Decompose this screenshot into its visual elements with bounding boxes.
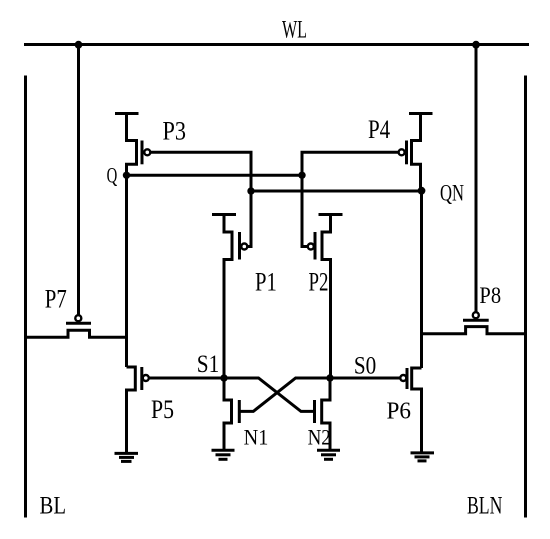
- node WL-BL junction: [75, 41, 83, 49]
- node Q rail to P4 gate: [298, 172, 305, 179]
- transistor P2: [308, 215, 343, 379]
- wire Q rail: [127, 174, 303, 177]
- wire P3 gate to QN rail and P1 gate: [150, 152, 251, 246]
- node WL-BLN junction: [472, 41, 480, 49]
- wire WL to P8 gate: [475, 45, 478, 313]
- node QN rail to P3 gate: [247, 187, 254, 194]
- transistor N2: [315, 378, 331, 451]
- transistor P6: [400, 368, 421, 453]
- transistor P8: [463, 312, 489, 320]
- svg-text:P4: P4: [368, 115, 390, 144]
- wire P5 gate to S1: [149, 377, 224, 380]
- ground under P5: [115, 453, 139, 461]
- svg-text:BLN: BLN: [467, 492, 502, 519]
- wire Q vertical: [125, 175, 128, 367]
- ground under N1: [212, 450, 235, 459]
- transistor P5: [127, 367, 149, 453]
- svg-text:P6: P6: [387, 397, 412, 424]
- ground under N2: [317, 450, 340, 459]
- wire S0 to N1 gate (cross): [239, 378, 330, 411]
- wire QN rail: [251, 190, 422, 193]
- transistor P1: [212, 215, 247, 379]
- node QN: [418, 187, 426, 195]
- wire P4 gate to Q rail and P2 gate: [302, 152, 399, 246]
- wire BL to Q through P7 channel: [26, 330, 127, 337]
- wire WL: [24, 43, 529, 46]
- ground under P6: [411, 453, 435, 461]
- svg-text:N2: N2: [308, 425, 331, 450]
- wire WL to P7 gate: [77, 45, 80, 316]
- svg-text:WL: WL: [282, 15, 307, 44]
- wire QN vertical: [420, 191, 423, 368]
- svg-text:P3: P3: [163, 117, 187, 146]
- svg-text:QN: QN: [440, 181, 464, 207]
- transistor P7: [66, 315, 91, 323]
- transistor P3: [115, 114, 150, 176]
- wire S0 to P6 gate: [330, 377, 400, 380]
- node S1: [220, 374, 227, 381]
- transistor N1: [224, 378, 239, 451]
- svg-text:Q: Q: [107, 164, 118, 189]
- wire BL vertical: [24, 76, 27, 518]
- svg-text:S1: S1: [197, 351, 220, 378]
- svg-text:N1: N1: [244, 425, 269, 450]
- node Q: [123, 172, 130, 179]
- svg-text:P8: P8: [479, 283, 501, 309]
- svg-text:P7: P7: [45, 285, 67, 314]
- svg-text:S0: S0: [354, 353, 376, 380]
- svg-text:P2: P2: [309, 267, 329, 297]
- svg-text:P1: P1: [255, 267, 277, 297]
- svg-text:P5: P5: [151, 395, 174, 424]
- svg-text:BL: BL: [40, 491, 67, 520]
- wire S1 to N2 gate (cross): [224, 378, 315, 411]
- wire QN to BLN through P8 channel: [422, 327, 526, 334]
- wire BLN vertical: [524, 76, 527, 518]
- node S0: [326, 374, 333, 381]
- transistor P4: [399, 114, 433, 191]
